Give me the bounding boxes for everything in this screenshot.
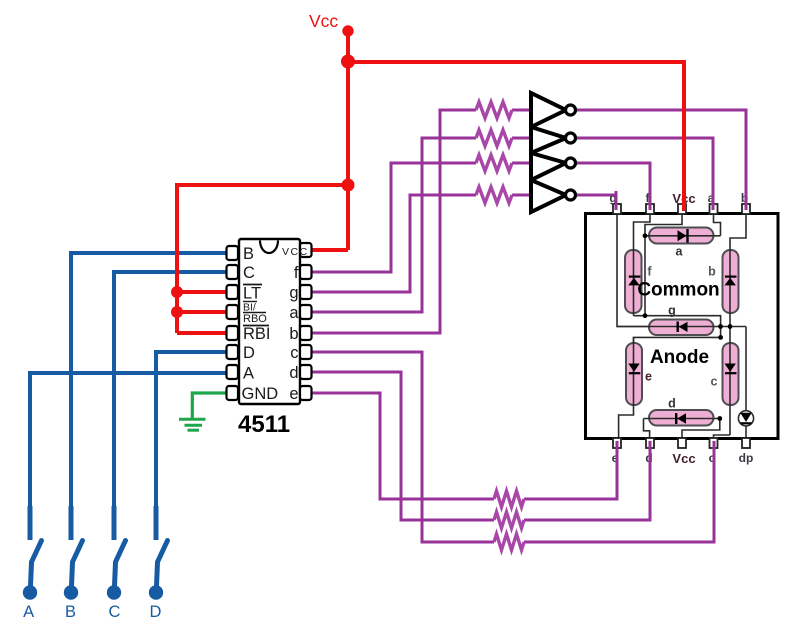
display pin Vcc (top)	[678, 204, 686, 214]
wire pin a to segment a	[714, 214, 721, 236]
resistor R6	[494, 512, 524, 528]
svg-text:D: D	[150, 603, 162, 621]
resistor R2	[476, 130, 512, 146]
pin RBI	[227, 326, 239, 340]
svg-text:Vcc: Vcc	[672, 451, 695, 466]
wire d output to bottom resistor row 2	[312, 372, 494, 520]
wire c output to bottom resistor row 3	[312, 352, 494, 542]
node d-right junction	[717, 416, 722, 421]
wire through segment a	[645, 235, 721, 237]
svg-text:BI/: BI/	[243, 302, 256, 314]
wire e output to bottom resistor row 1	[312, 393, 494, 499]
switch D	[149, 541, 168, 600]
wire f output to inverter row 3	[312, 163, 476, 272]
wire g output to inverter row 4	[312, 195, 476, 292]
svg-text:g: g	[289, 284, 298, 302]
inverter U3	[531, 153, 576, 180]
label pin LT	[243, 285, 262, 303]
pin e	[300, 386, 312, 400]
wire switch C to pin C	[114, 272, 227, 507]
svg-text:Vcc: Vcc	[309, 11, 338, 31]
svg-text:c: c	[290, 344, 298, 362]
resistor R7	[494, 534, 524, 550]
wire switch B to pin B	[71, 253, 227, 507]
wire pin b to segment b	[730, 214, 746, 250]
svg-text:D: D	[243, 344, 255, 362]
wire inverter 3 output to display pin f	[575, 163, 650, 212]
svg-text:d: d	[289, 364, 298, 382]
label pin BI/RBO	[243, 302, 267, 326]
wire pin Vcc top to anode rail	[645, 214, 682, 236]
wire stub into display pin g	[615, 191, 618, 210]
ground	[179, 419, 206, 430]
svg-text:a: a	[676, 245, 684, 259]
display pin Vcc (bottom)	[678, 438, 686, 448]
svg-text:RBI: RBI	[243, 325, 271, 343]
svg-text:VCC: VCC	[282, 246, 309, 258]
node anode-a junction	[643, 233, 648, 238]
wire anode vertical rail	[644, 236, 646, 316]
wire stub into display pin c bottom	[713, 441, 716, 466]
segment e	[626, 343, 642, 405]
wire switch A to pin A	[30, 373, 227, 507]
LED diode f	[628, 277, 640, 286]
segment g	[649, 320, 714, 336]
wire stub into display Vcc pin	[682, 189, 686, 211]
switch C	[107, 541, 126, 600]
LED diode c	[725, 364, 737, 374]
wire resistor R1 to inverter 1 input	[512, 109, 531, 112]
svg-text:b: b	[708, 265, 716, 279]
node LT junction	[171, 286, 183, 298]
pin f	[300, 265, 312, 279]
wire switch D to pin D	[156, 352, 227, 507]
resistor R3	[476, 155, 512, 171]
LED diode e	[628, 364, 640, 374]
switch A fixed stub	[28, 506, 33, 540]
node Vcc junction 2	[342, 179, 355, 192]
pin d	[300, 365, 312, 379]
display U6 body	[586, 214, 779, 439]
wire to BI/RBO pin	[177, 310, 227, 314]
segment c	[723, 343, 739, 405]
switch A	[23, 541, 42, 600]
wire to LT pin	[177, 290, 227, 294]
pin B	[227, 246, 239, 260]
node g-rail junction	[718, 324, 723, 329]
switch D fixed stub	[154, 506, 159, 540]
LED diode g	[678, 322, 688, 333]
node BI junction	[171, 306, 183, 318]
wire b output to inverter row 1	[312, 110, 476, 333]
svg-text:B: B	[243, 245, 254, 263]
resistor R4	[476, 187, 512, 203]
label pin RBI	[243, 325, 271, 343]
wire Vcc down to 4511	[346, 62, 350, 250]
wire stub into display pin f	[649, 191, 652, 210]
switch B	[64, 541, 83, 600]
LED dp	[738, 411, 753, 426]
svg-text:c: c	[711, 375, 718, 389]
node g-b junction	[728, 324, 733, 329]
svg-text:RBO: RBO	[243, 313, 267, 325]
wire stub into display pin e bottom	[616, 441, 619, 466]
svg-text:b: b	[289, 325, 298, 343]
wire stub into display pin d bottom	[649, 441, 652, 466]
segment f	[625, 250, 642, 313]
switch B fixed stub	[69, 506, 74, 540]
svg-text:C: C	[243, 264, 255, 282]
segment a	[649, 228, 714, 244]
svg-text:GND: GND	[242, 385, 279, 403]
resistor R1	[476, 102, 512, 118]
display pin g (top)	[613, 204, 621, 214]
wire Vcc branch to LT/BI/RBI	[177, 185, 348, 333]
display pin b (top)	[742, 204, 750, 214]
wire bottom resistor R5 to display pin e	[524, 440, 617, 499]
svg-text:dp: dp	[739, 451, 754, 465]
svg-text:4511: 4511	[238, 411, 290, 438]
pin A	[227, 365, 239, 379]
wire pin g to segment g	[617, 214, 649, 327]
display pin d (bottom)	[646, 438, 654, 448]
LED diode d	[676, 413, 686, 424]
segment b	[723, 250, 739, 313]
pin GND	[227, 386, 239, 400]
LED diode b	[725, 277, 737, 286]
svg-text:Common: Common	[637, 280, 719, 301]
pin D	[227, 345, 239, 359]
pin g	[300, 285, 312, 299]
internal display wires	[617, 214, 746, 438]
display pin dp (bottom)	[742, 438, 750, 448]
wire resistor R2 to inverter 2 input	[512, 137, 531, 140]
wire anode branch to dp	[745, 327, 747, 438]
wire to 4511 VCC pin	[312, 248, 348, 252]
inverter U4	[531, 180, 576, 212]
svg-text:A: A	[23, 603, 34, 621]
wire segment c to pin c	[714, 435, 731, 438]
wire anode mid rail	[634, 316, 721, 343]
wire segment e to pin e	[619, 404, 634, 437]
IC U5 4511 body	[239, 239, 300, 404]
wire through segment d	[644, 418, 720, 420]
wire pin Vcc bottom to segment d	[682, 419, 720, 438]
wire through segment e	[633, 337, 635, 405]
svg-text:g: g	[668, 304, 676, 318]
wire Vcc rail to display	[348, 62, 684, 211]
svg-text:C: C	[109, 603, 121, 621]
segment d	[649, 410, 714, 426]
wire through segment b and c	[729, 250, 731, 435]
pin a	[300, 305, 312, 319]
pin b	[300, 326, 312, 340]
wire stub into display pin a	[712, 191, 715, 210]
wire bottom resistor R6 to display pin d	[524, 440, 650, 520]
svg-text:e: e	[289, 385, 298, 403]
svg-text:LT: LT	[243, 285, 261, 303]
pin c	[300, 345, 312, 359]
node rail corner junction	[718, 335, 723, 340]
wire to RBI pin	[177, 331, 227, 335]
display pin e (bottom)	[613, 438, 621, 448]
display pin a (top)	[710, 204, 718, 214]
pin VCC	[300, 243, 312, 257]
wire through segment g	[617, 326, 746, 328]
switch C fixed stub	[112, 506, 117, 540]
wire inverter 1 output to display pin b	[575, 110, 746, 212]
wire resistor R3 to inverter 3 input	[512, 162, 531, 165]
display pin f (top)	[646, 204, 654, 214]
display pin c (bottom)	[710, 438, 718, 448]
node Vcc top	[342, 25, 353, 36]
inverter U2	[531, 127, 576, 153]
node Vcc junction 1	[341, 55, 355, 69]
wire stub into display pin b	[745, 191, 748, 210]
pin BI/RBO	[227, 305, 239, 319]
inverter U1	[531, 93, 576, 127]
wire inverter 2 output to display pin a	[575, 138, 713, 212]
svg-text:Anode: Anode	[650, 347, 709, 368]
svg-text:a: a	[289, 304, 299, 322]
wire Vcc stub	[346, 30, 350, 62]
wire bottom resistor R7 to display pin c	[524, 440, 714, 542]
svg-text:e: e	[645, 370, 652, 384]
svg-text:B: B	[65, 603, 76, 621]
svg-text:A: A	[243, 365, 254, 383]
node anode rail junction	[643, 313, 648, 318]
resistor R5	[494, 491, 524, 507]
wire through segment f	[633, 250, 635, 316]
svg-text:f: f	[294, 264, 299, 282]
wire resistor R4 to inverter 4 input	[512, 194, 531, 197]
wire GND	[192, 393, 228, 419]
wire inverter 4 output to display pin g	[575, 195, 616, 212]
LED diode a	[678, 229, 688, 243]
svg-text:d: d	[668, 397, 676, 411]
wire pin f to segment f	[634, 214, 651, 250]
wire segment d to pin d	[644, 419, 650, 438]
pin C	[227, 265, 239, 279]
wire a output to inverter row 2	[312, 138, 476, 312]
pin LT	[227, 285, 239, 299]
